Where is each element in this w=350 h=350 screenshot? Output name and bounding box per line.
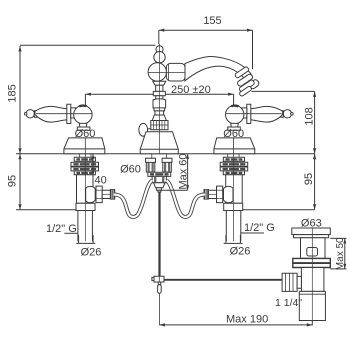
left valve under-deck group <box>71 154 115 242</box>
drain centerline <box>311 228 313 321</box>
spout collar barrel <box>166 63 185 81</box>
left lever collar <box>67 104 71 123</box>
extension line bottom 95 left <box>16 209 78 211</box>
right valve under-deck group (mirror) <box>204 154 248 242</box>
svg-text:185: 185 <box>7 84 19 102</box>
left lever neck <box>71 108 76 118</box>
valve step <box>76 203 95 210</box>
right lever collar <box>247 104 251 123</box>
extension line bottom 95 right <box>242 209 315 211</box>
left hose <box>114 180 152 217</box>
rod tip capsule <box>158 285 162 294</box>
drain flange <box>292 228 331 235</box>
dimension line right 108/95 <box>313 91 316 209</box>
coupling washer <box>297 276 301 288</box>
svg-text:Ø60: Ø60 <box>120 164 141 176</box>
leader 1/2 G left <box>64 232 78 234</box>
right handle ball <box>226 105 244 123</box>
left handle ball <box>74 105 92 123</box>
drain assembly <box>282 228 330 321</box>
svg-text:250 ±20: 250 ±20 <box>171 84 211 96</box>
svg-text:Ø26: Ø26 <box>81 246 102 258</box>
svg-text:40: 40 <box>95 175 107 187</box>
right lever grip <box>251 106 283 122</box>
40 dimension <box>92 154 95 176</box>
left lever tip ball <box>26 110 34 118</box>
dimension 155 <box>159 29 253 70</box>
flange plate 3 <box>71 167 99 171</box>
svg-text:Max 60: Max 60 <box>177 153 189 189</box>
valve shank below deck <box>79 154 81 158</box>
body block <box>152 176 166 182</box>
right elbow bulge <box>224 186 234 202</box>
ball dark cap <box>79 104 86 107</box>
svg-text:Ø60: Ø60 <box>75 128 96 140</box>
extension line top of faucet (185) <box>20 44 156 46</box>
overflow window <box>307 248 318 257</box>
spout curved tube <box>185 56 253 80</box>
knurled block <box>151 121 168 130</box>
lever axis line <box>36 113 92 115</box>
center faucet column <box>139 44 260 154</box>
right hose <box>167 180 205 217</box>
locking ring plates <box>293 258 331 262</box>
right lever neck <box>242 108 247 118</box>
svg-text:1/2" G: 1/2" G <box>244 222 275 234</box>
dimension Ø26 left <box>76 235 95 243</box>
center under-deck body <box>146 154 172 192</box>
drain lower body <box>301 268 324 292</box>
right lever axis line <box>226 113 282 115</box>
column baluster rings <box>153 81 166 85</box>
right handle bonnet <box>231 123 239 127</box>
Max 50 dimension <box>330 238 346 269</box>
spout axis line <box>149 71 185 73</box>
finial middle ball <box>154 52 165 63</box>
valve tailpiece <box>78 211 93 242</box>
drain tailpiece <box>299 291 325 320</box>
spout hub ball <box>148 63 166 81</box>
svg-text:95: 95 <box>303 173 315 185</box>
horizontal rod to drain <box>164 279 284 281</box>
finial small ball <box>156 46 163 53</box>
svg-text:155: 155 <box>203 15 221 27</box>
right elbow hex nut <box>217 186 223 203</box>
right elbow nipple <box>208 190 216 198</box>
left handle group <box>24 104 92 130</box>
column shank below deck <box>151 154 153 159</box>
hex coupling <box>282 273 297 291</box>
right ball dark cap <box>231 104 238 107</box>
pop-up rod vertical <box>158 192 160 276</box>
right valve step <box>224 203 243 210</box>
right inlet tube <box>163 158 172 172</box>
right escutcheon bell <box>214 138 255 154</box>
left handle bonnet <box>79 123 87 127</box>
dimension 185 vertical line left <box>18 46 21 210</box>
right valve body tube <box>226 175 243 204</box>
right valve tailpiece <box>226 211 241 242</box>
mounting nut bar <box>148 172 171 176</box>
column centerline <box>159 44 161 154</box>
right hose ridges <box>204 190 208 200</box>
center escutcheon bell <box>140 132 178 154</box>
svg-text:Max 190: Max 190 <box>226 314 268 326</box>
valve centerline <box>84 154 86 242</box>
dimension Ø26 right <box>224 235 243 243</box>
right lever tip ball <box>283 110 291 118</box>
elbow bulge <box>86 186 96 202</box>
clamp stem <box>158 282 160 285</box>
flange plate 1 <box>74 157 95 161</box>
svg-text:Ø63: Ø63 <box>301 218 322 230</box>
valve body tube <box>77 175 94 204</box>
elbow hex nut <box>96 186 102 203</box>
left lever grip <box>35 106 67 122</box>
body taper <box>154 183 165 188</box>
flange plate 2 <box>71 162 99 166</box>
svg-text:1 1/4": 1 1/4" <box>275 297 302 309</box>
elbow nipple <box>102 190 110 198</box>
svg-text:Ø60: Ø60 <box>223 128 244 140</box>
flange plate 4 <box>74 171 95 175</box>
leader 1/2 G right <box>241 232 264 234</box>
dimension 250 +-20 / 108 reference line <box>85 91 314 107</box>
svg-text:108: 108 <box>304 107 316 125</box>
right handle group (mirror of left) <box>226 104 294 130</box>
svg-text:Max 50: Max 50 <box>335 237 346 270</box>
sprayer head <box>234 66 260 97</box>
rod clamp <box>152 276 164 282</box>
right valve centerline <box>232 154 234 242</box>
body tip <box>156 188 161 191</box>
thin rod below capsule <box>158 293 160 325</box>
pop-up knob <box>139 123 148 136</box>
hose ridges <box>110 190 114 200</box>
left inlet tube <box>146 158 155 172</box>
drain neck <box>301 238 326 259</box>
svg-text:Ø26: Ø26 <box>230 246 251 258</box>
deck line <box>16 153 315 155</box>
Max 190 dimension <box>159 321 312 327</box>
flange plates right <box>238 154 240 158</box>
Max 60 dimension <box>162 154 190 190</box>
svg-text:95: 95 <box>7 175 19 187</box>
left escutcheon bell <box>64 138 105 154</box>
